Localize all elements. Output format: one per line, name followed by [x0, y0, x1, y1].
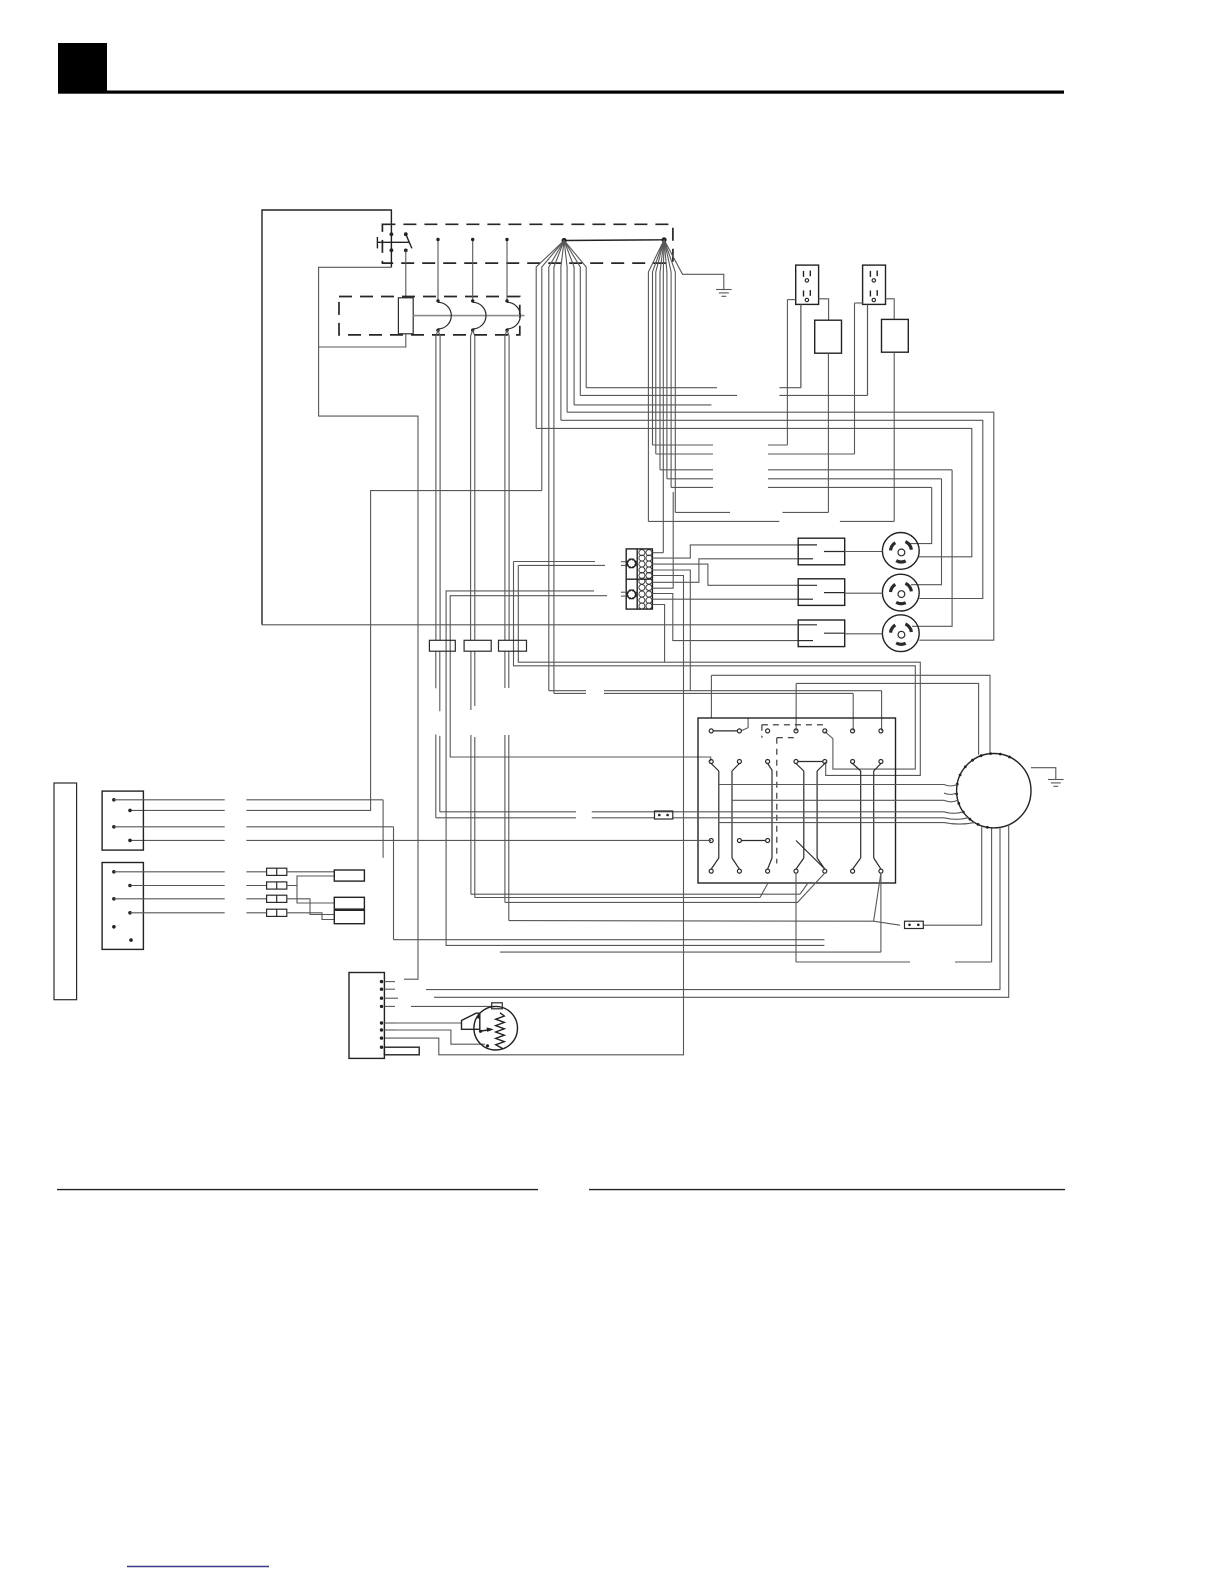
heater rim terminals — [477, 1015, 489, 1047]
wire pill2 branch — [287, 876, 335, 903]
wire strip row5 to plug — [384, 1022, 461, 1024]
wire winding W2 pair — [471, 330, 475, 640]
breaker CB3 — [798, 620, 845, 647]
wire bus to CB3 line — [262, 624, 798, 626]
wire deep drop to control col7 — [549, 691, 882, 731]
wire row 405 — [574, 404, 711, 406]
terminal board contact holes — [639, 550, 652, 609]
connector CN2 — [464, 640, 491, 651]
wire TB1-A stubs — [621, 562, 626, 566]
control pole c6-c7 — [853, 764, 881, 870]
receptacle J1 120V duplex — [796, 265, 819, 304]
footer rule left — [57, 1189, 538, 1191]
wire field sense b2 — [518, 565, 920, 775]
wire alternator ground — [1031, 768, 1056, 780]
wire CB1 to TL1 — [845, 551, 883, 553]
wire harness N1 leg 9 — [564, 241, 586, 388]
terminal strip TS1 — [349, 973, 384, 1059]
wire stator sense 1 — [436, 238, 439, 301]
wire harness N2 leg 4 — [660, 240, 664, 470]
page header black square — [58, 43, 107, 93]
wire harness N2 leg 8 — [664, 240, 675, 513]
wire J2 neutral lead — [855, 302, 863, 304]
wire row to CB-A — [675, 511, 828, 513]
terminal screw TB1-B — [627, 590, 637, 600]
wire pill4 to diode box3b — [287, 913, 335, 920]
twist-lock receptacle TL2 — [882, 574, 919, 611]
wire exciter bottom — [319, 334, 406, 347]
wire pair2b run — [475, 651, 768, 897]
control pole c1-c2 — [711, 764, 739, 870]
wire row to TL3 hot — [660, 470, 952, 627]
wire lamp box to control col1 — [130, 839, 711, 841]
heater element — [496, 1013, 505, 1049]
terminal board TB1 outline — [626, 549, 652, 609]
control link r1 c1-c2 — [713, 730, 737, 732]
lamp box P1 — [102, 791, 143, 850]
legend bar — [54, 783, 77, 1000]
stator winding W3 — [505, 299, 520, 332]
node N1 — [562, 238, 567, 243]
receptacle J2 120V duplex — [863, 265, 886, 304]
wire harness N1 leg 5 — [561, 241, 564, 421]
wire TB row9 to CB2 line2 — [652, 598, 798, 600]
wire field sense a2 — [514, 562, 916, 770]
wire harness N2 leg 1 — [648, 240, 664, 522]
diode box D2 — [334, 897, 364, 909]
diode box D1 — [334, 870, 364, 881]
engine switch S1 — [377, 232, 412, 267]
wire P1 row3 — [114, 827, 825, 940]
control pole c4-c5 — [796, 764, 825, 870]
wire harness N1 leg 7 — [564, 241, 574, 405]
wire TB row6 to CB1 line2 — [652, 559, 798, 583]
wire row to R1 hot — [653, 300, 788, 445]
control link r2 c4-c5 — [798, 761, 823, 763]
exciter winding block — [398, 298, 413, 334]
wire stator sense 3 — [505, 238, 508, 301]
wire alternator bottom lead 3 — [426, 827, 1000, 989]
stator common bus — [413, 315, 524, 317]
wire field sense a — [514, 561, 596, 563]
wire control c7 drop — [500, 873, 881, 952]
wire J2 hot lead — [886, 299, 895, 320]
control box contacts — [709, 729, 883, 873]
breaker CB-A — [815, 320, 842, 353]
ground G2 — [1048, 780, 1064, 787]
stator winding W1 — [436, 299, 451, 332]
wire control to regulator bottom 1 — [874, 827, 982, 925]
wire pair1b run — [440, 651, 944, 812]
wire CB-B load — [893, 352, 895, 521]
wire TB row4 drop — [652, 570, 690, 691]
breaker CB-B — [882, 319, 909, 352]
page header rule — [58, 91, 1064, 94]
wire P2 row3 — [114, 898, 267, 900]
switch box P2 — [102, 863, 143, 950]
wire control col4 top feed — [796, 683, 979, 754]
wire row to TL1 hot — [671, 487, 932, 543]
wire control c4 to regulator — [796, 828, 992, 962]
breaker CB2 — [798, 579, 845, 606]
wire stator sense 2 — [471, 238, 474, 301]
wire node link — [564, 239, 664, 242]
stator winding enclosure — [339, 297, 520, 335]
wire harness N1 leg 8 — [564, 241, 580, 396]
wire row to R2 hot — [656, 303, 855, 454]
twist-lock receptacle TL1 — [882, 533, 919, 570]
wire control col2 top feed — [741, 718, 748, 731]
wire pole tap 3 — [719, 822, 944, 824]
wire TB row2 to CB1 line — [652, 545, 798, 558]
control link r3 c2-c3 — [741, 840, 765, 842]
wire row to TL3 return — [567, 412, 994, 640]
twist-lock receptacle TL3 — [882, 615, 919, 652]
terminal screw TB1-A — [627, 559, 637, 569]
wire pill3 to diode box3 — [287, 899, 335, 915]
connector pill CN9 — [267, 909, 287, 916]
wire harness N2 leg 7 — [664, 240, 671, 488]
wire harness N1 leg 6 — [564, 241, 567, 413]
wire N2 leg to terminal row1 — [652, 552, 663, 554]
wire TB-B feed 1 — [446, 591, 824, 946]
wire harness N1 leg 1 — [536, 241, 564, 429]
node N2 — [662, 237, 667, 242]
wire P2 row2 — [130, 885, 267, 887]
wire alternator bottom lead 4 — [434, 825, 1009, 998]
wire P2 row4 — [130, 912, 267, 914]
wire harness N2 leg 2 — [653, 240, 665, 445]
wire TB row5 long drop — [384, 576, 683, 1055]
wire pair2a run — [471, 651, 808, 894]
engine switch enclosure — [382, 224, 673, 263]
wire row to TL2 hot — [667, 479, 942, 585]
diode box D3 — [334, 910, 364, 923]
wire J1 hot lead — [819, 299, 829, 320]
wire TB row3 to CB2 line — [652, 564, 798, 585]
footer rule right — [589, 1189, 1065, 1191]
wire winding W1 pair — [436, 330, 440, 640]
wire J1 neutral lead — [787, 299, 795, 301]
wire switch exit left elbow — [319, 267, 418, 979]
wire row to TL1 return — [536, 428, 972, 556]
wire harness N1 leg 2 — [542, 241, 564, 491]
wire control c7 slant — [509, 873, 881, 921]
wire TB1-B stubs — [621, 592, 626, 596]
wire pair1a run — [436, 651, 944, 818]
stator winding W2 — [471, 299, 486, 332]
wire control c5 to pair3a — [505, 873, 825, 902]
wire harness N1 leg 3 — [549, 241, 564, 691]
alternator A1 body — [957, 754, 1031, 828]
heater plug CN9 — [462, 1013, 480, 1029]
wire strip row4 to heater — [411, 1005, 492, 1007]
connector inline CN4 — [905, 921, 924, 928]
wire harness N2 leg 3 — [656, 240, 664, 454]
wire pair3a run — [504, 651, 506, 902]
wire control top feed A — [711, 675, 990, 753]
wire CB2 to TL2 — [845, 592, 883, 594]
wire switch to exciter winding — [405, 250, 407, 297]
control pole c3 — [768, 764, 772, 870]
control box outline — [698, 718, 896, 883]
wire pill1 to diode box1 — [287, 871, 335, 873]
wire winding W3 pair — [505, 330, 509, 640]
wire TB row7 riser — [652, 492, 673, 588]
wire row to R2 neutral — [580, 304, 867, 395]
wire pair3b run — [508, 651, 510, 920]
footnote underline — [127, 1566, 269, 1568]
heater wiper arrow — [479, 1027, 494, 1033]
wire harness N2 leg 5 — [662, 240, 665, 553]
wire harness N2 leg 6 — [664, 240, 667, 479]
wire pole tap 1 — [719, 784, 944, 786]
wire P2 row1 — [114, 871, 267, 873]
wire harness N1 leg 4 — [554, 241, 564, 694]
wire CB-A load — [827, 353, 829, 512]
ground G1 — [716, 290, 732, 297]
wire node N2 to ground — [664, 240, 724, 290]
wire row to TL2 return — [561, 420, 983, 598]
wire TB-B feed 2 — [450, 596, 711, 762]
wire P1 row1 — [114, 800, 383, 858]
wire CB3 to TL3 — [845, 633, 883, 635]
wire row to CB-B — [648, 520, 894, 522]
wire field sense b — [518, 564, 605, 566]
connector pill CN7 — [267, 882, 287, 889]
wire N1 leg to lamp box — [130, 491, 542, 811]
connector CN3 — [499, 640, 527, 651]
breaker CB1 — [798, 538, 845, 565]
heater thermostat — [492, 1003, 503, 1009]
wire TB row8 to CB3 — [652, 594, 798, 641]
alternator brush leads — [944, 785, 975, 825]
connector inline CN5 — [655, 811, 673, 819]
heater H1 body — [474, 1006, 518, 1050]
connector CN1 — [429, 640, 455, 651]
wire strip row6 to heater case — [384, 1030, 485, 1044]
wire row to R1 neutral — [586, 304, 801, 387]
wire pole tap 2 — [732, 799, 944, 801]
terminal strip tab — [384, 1047, 419, 1055]
alternator rim terminals — [955, 752, 1011, 829]
control slant c4-c5 — [796, 841, 825, 870]
wire TB row10 drop — [652, 605, 664, 663]
connector pill CN8 — [267, 895, 287, 902]
wire top-left from engine switch loop — [262, 210, 391, 625]
control coupling dashed — [762, 725, 825, 864]
connector pill CN6 — [267, 868, 287, 875]
wire J1 ground lead — [800, 304, 802, 387]
wire deep drop to control col6 — [554, 693, 853, 730]
wire J2 ground lead — [867, 304, 869, 395]
terminal strip contacts — [380, 980, 398, 1049]
